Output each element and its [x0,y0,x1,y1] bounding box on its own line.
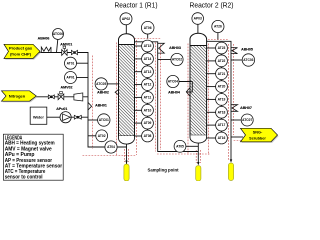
sampling vial 1 [124,164,129,181]
heat-trace R2 jacket top [190,39,228,41]
heater ABH01 [88,102,92,110]
svg-text:AT26: AT26 [214,25,222,29]
sampling vial 2 [196,166,201,181]
wire AT14 stem [135,58,143,60]
heater ABH04 [186,87,190,96]
sampling arrow 2 [197,162,200,165]
svg-text:AT14: AT14 [144,57,152,61]
wire AT26 stem [217,33,219,40]
wire AT12 stem [135,84,143,86]
svg-text:SNG-: SNG- [253,131,263,135]
heat-trace R1 drain tracing right [128,149,130,162]
sensor AT20 [216,81,228,93]
wire AT10 stem [135,109,143,111]
sensor AT22 [216,55,228,67]
wire R2 thermocouple lance [221,48,223,138]
wire ATC02 stem [158,59,171,61]
svg-text:Sampling point: Sampling point [147,168,179,173]
sensor ATC06 [53,29,64,40]
heat-trace R1 jacket left [116,43,118,156]
svg-text:ATC04: ATC04 [168,80,178,84]
svg-text:ABH01: ABH01 [95,103,107,107]
sensor ATC07 [241,114,253,126]
valve AMV02 [58,91,64,99]
sensor AP01 [65,72,77,84]
svg-text:(from CHP): (from CHP) [10,51,32,56]
heater ABH07 [231,105,238,112]
svg-text:AT06: AT06 [144,26,152,30]
svg-text:AT15: AT15 [144,44,152,48]
svg-text:AT02: AT02 [98,134,106,138]
wire AP02 stem [125,25,127,35]
svg-text:ABH06: ABH06 [38,37,50,41]
svg-text:AT04: AT04 [107,145,115,149]
svg-text:AMV01: AMV01 [60,42,72,46]
sensor AT19 [216,94,228,106]
wire water line to pump [47,116,60,118]
svg-text:AT18: AT18 [218,110,226,114]
svg-text:AP02: AP02 [122,17,130,21]
wire feed gas line [39,53,127,148]
svg-text:Nitrogen: Nitrogen [9,94,26,99]
sensor AT23 [216,42,228,54]
svg-text:Reactor 1 (R1): Reactor 1 (R1) [115,2,158,9]
wire AP03 stem [197,24,199,33]
wire AT21 stem [207,73,216,75]
wire AT17 stem [207,124,216,126]
valve AMV01 [62,46,67,55]
sensor AT02 [96,130,108,142]
sensor AT09 [142,117,154,129]
wire ATC03 stem [231,59,242,61]
wire ATC05 stem [107,83,118,85]
svg-text:AT16: AT16 [218,136,226,140]
check valve on nitrogen line [48,95,54,99]
svg-text:AP01: AP01 [66,76,74,80]
svg-text:AT17: AT17 [218,123,226,127]
check valve after pump [74,115,81,119]
heat-trace outlet tracing right [233,44,235,135]
pump APu01 [60,112,71,123]
reducer on nitrogen line [74,93,83,101]
svg-text:APu01: APu01 [56,107,67,111]
wire AT02 stem [88,135,96,137]
wire AT22 stem [207,60,216,62]
sampling vial 3 [228,163,233,181]
svg-text:ABH07: ABH07 [240,106,252,110]
sensor ATC02 [171,53,183,65]
wire product branch to arrow [231,136,243,138]
heat-trace R1 jacket right [136,40,138,155]
svg-text:ATC05: ATC05 [96,82,106,86]
svg-text:ABH05: ABH05 [241,48,253,52]
wire AP01 stem [76,77,88,79]
svg-text:AT11: AT11 [144,95,152,99]
sensor AP02 [120,13,132,25]
sampling arrow 1 [125,161,128,164]
svg-text:AT05: AT05 [176,144,184,148]
heater ABH05 [231,48,238,54]
heat-trace R2 jacket left [187,44,189,155]
svg-text:AMV02: AMV02 [61,86,73,90]
wire R2 drain pipe [197,142,199,165]
heater ABH02 [115,89,119,95]
svg-text:ATC06: ATC06 [53,32,63,36]
sensor AT06 [141,21,154,34]
nitrogen feed arrow [2,91,38,103]
heat-trace R1 jacket top [135,38,161,40]
svg-text:ATC03: ATC03 [243,58,253,62]
svg-text:AT22: AT22 [218,59,226,63]
wire ATC06 stem [57,39,58,52]
sensor ATC04 [167,75,179,87]
svg-text:Reactor 2 (R2): Reactor 2 (R2) [190,2,234,9]
heat-trace outlet tracing left [228,44,230,160]
wire R1 drain pipe [126,143,128,165]
svg-text:ABH03: ABH03 [169,46,181,50]
heat-trace R2 drain tracing right [200,150,202,163]
wire R1 thermocouple lance [147,46,149,136]
sensor ATC05 [95,78,107,90]
sensor AT04 [105,141,117,153]
svg-text:sensor to control: sensor to control [5,175,43,181]
legend box [3,134,63,180]
product gas feed arrow [4,44,41,59]
SNG scrubber outlet arrow [241,128,279,143]
wire nitrogen line [36,96,88,98]
wire water line pump to junction [71,116,88,118]
sensor ATC03 [242,54,254,66]
svg-text:AT12: AT12 [144,83,152,87]
heat-trace R2 jacket right [208,44,210,155]
wire AT09 stem [135,122,143,124]
sensor AT10 [142,104,154,116]
wire AT16 stem [207,137,216,139]
svg-text:ABH02: ABH02 [97,91,109,95]
svg-text:AP03: AP03 [194,17,202,21]
svg-text:AT21: AT21 [218,72,226,76]
heat-trace transfer line tracing right [160,45,162,151]
heat-trace transfer line tracing left [155,43,157,152]
reactor R1 vessel [119,34,135,144]
wire ATC04 elbow to ABH04 [179,82,192,92]
wire AT08 stem [135,135,143,137]
svg-text:AT08: AT08 [144,134,152,138]
svg-text:ATC07: ATC07 [242,118,252,122]
sensor AT17 [216,119,228,131]
heat-trace R1 drain tracing left [123,149,125,162]
heat-trace heat tracing bottom left [83,155,137,157]
sensor AT11 [142,92,154,104]
sampling arrow 3 [230,159,233,162]
wire ATC01 stem [88,119,98,121]
heater ABH03 [158,43,165,53]
sensor AT01 [65,57,77,69]
sensor AT14 [142,53,154,65]
sensor AT16 [216,132,228,144]
svg-text:Water: Water [33,115,44,120]
heat-trace heat tracing feed pipe [91,56,93,150]
sensor AT18 [216,106,228,118]
sensor AT13 [142,66,154,78]
sensor AT05 [174,140,186,152]
wire AT23 stem [207,47,216,49]
water source box [30,107,47,124]
sensor AT08 [142,130,154,142]
wire ATC07 stem [231,119,241,121]
svg-text:ABH04: ABH04 [168,90,180,94]
svg-text:Product gas: Product gas [9,45,33,50]
wire AT13 stem [135,71,143,73]
heat-trace outlet branch tracing [234,140,242,142]
wire AT01 stem [76,62,88,64]
sensor ATC01 [98,114,110,126]
wire AT18 stem [207,111,216,113]
wire R2 outlet line [207,41,231,161]
heat-trace R2 bottom tracing [157,153,210,155]
svg-text:AT09: AT09 [144,121,152,125]
svg-text:Scrubber: Scrubber [249,137,266,141]
svg-text:AT19: AT19 [218,97,226,101]
reactor R2 vessel [190,33,207,143]
svg-text:ATC01: ATC01 [99,118,109,122]
svg-text:AT01: AT01 [67,61,75,65]
svg-text:AT20: AT20 [218,85,226,89]
wire AT19 stem [207,98,216,100]
sensor AP03 [192,13,204,25]
svg-text:AT13: AT13 [144,70,152,74]
sensor AT26 [212,20,224,32]
wire R1 outlet transfer line [135,42,199,152]
heat-trace R2 drain tracing left [195,150,197,163]
wire AT15 stem [135,45,143,47]
wire AT06 stem [147,34,149,39]
svg-text:AT23: AT23 [218,46,226,50]
heater ABH06 [41,47,51,52]
sensor AT15 [142,40,154,52]
sensor AT12 [142,79,154,91]
wire AT05 stem [186,145,198,147]
svg-text:AT10: AT10 [144,108,152,112]
wire AT11 stem [135,96,143,98]
sensor AT21 [216,68,228,80]
svg-text:ATC02: ATC02 [172,58,182,62]
check valve on feed line [71,50,77,54]
wire AT20 stem [207,86,216,88]
